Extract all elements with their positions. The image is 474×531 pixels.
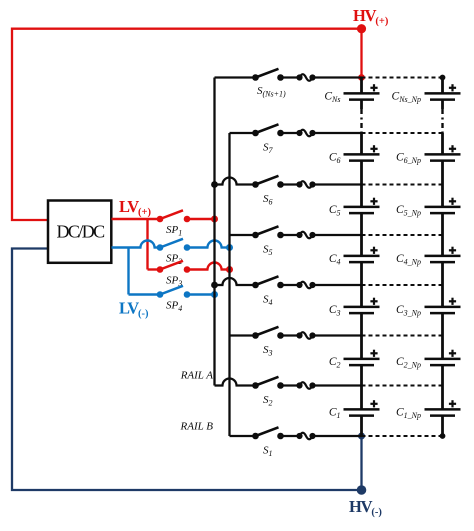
label HV(-) (349, 497, 382, 518)
switch S5 (230, 226, 362, 257)
switch SP1 (157, 210, 218, 237)
label HV(+) (353, 6, 389, 27)
capacitor C5 (329, 198, 380, 218)
label RAIL B (180, 421, 214, 433)
switch S1 (230, 427, 362, 458)
capacitor C2_Np (396, 350, 461, 370)
switch S3 (230, 327, 362, 358)
switch S6 (211, 176, 361, 207)
wire HV(+) bus (12, 29, 362, 220)
svg-text:RAIL A: RAIL A (180, 370, 214, 382)
capacitor CNs (324, 84, 379, 104)
wire parallel string bus (441, 78, 444, 437)
switch SP2 (157, 239, 233, 266)
node HV(-) terminal (357, 433, 367, 495)
label LV(-) (119, 299, 149, 320)
wire LV(+) net (112, 219, 161, 270)
wire series string bus (360, 78, 363, 437)
capacitor C1_Np (396, 400, 461, 420)
svg-text:RAIL B: RAIL B (180, 421, 214, 433)
switch SP4 (157, 286, 218, 313)
switch SP3 (157, 261, 233, 288)
switch S(Ns+1) (215, 69, 362, 99)
switch S7 (230, 124, 362, 155)
capacitor C6 (329, 145, 380, 165)
switch S2 (215, 377, 362, 408)
wire dashed parallel interconnects (362, 75, 446, 439)
capacitor C2 (329, 350, 380, 370)
capacitor C5_Np (396, 198, 461, 218)
label RAIL A (180, 370, 214, 382)
capacitor C6_Np (396, 145, 461, 165)
svg-text:DC/DC: DC/DC (56, 222, 105, 242)
capacitor C4 (329, 247, 380, 267)
wire LV(-) net (112, 241, 161, 295)
converter U1 DC/DC (48, 201, 111, 263)
wire RAIL A (213, 78, 215, 386)
switch S4 (211, 276, 361, 307)
label LV(+) (119, 197, 151, 218)
capacitor C1 (329, 400, 380, 420)
wire HV(-) bus (12, 249, 362, 491)
capacitor CNs_Np (392, 84, 461, 104)
capacitor C3_Np (396, 298, 461, 318)
capacitor C3 (329, 298, 380, 318)
node HV(+) terminal (357, 24, 366, 81)
wire RAIL B (228, 133, 230, 436)
capacitor C4_Np (396, 247, 461, 267)
